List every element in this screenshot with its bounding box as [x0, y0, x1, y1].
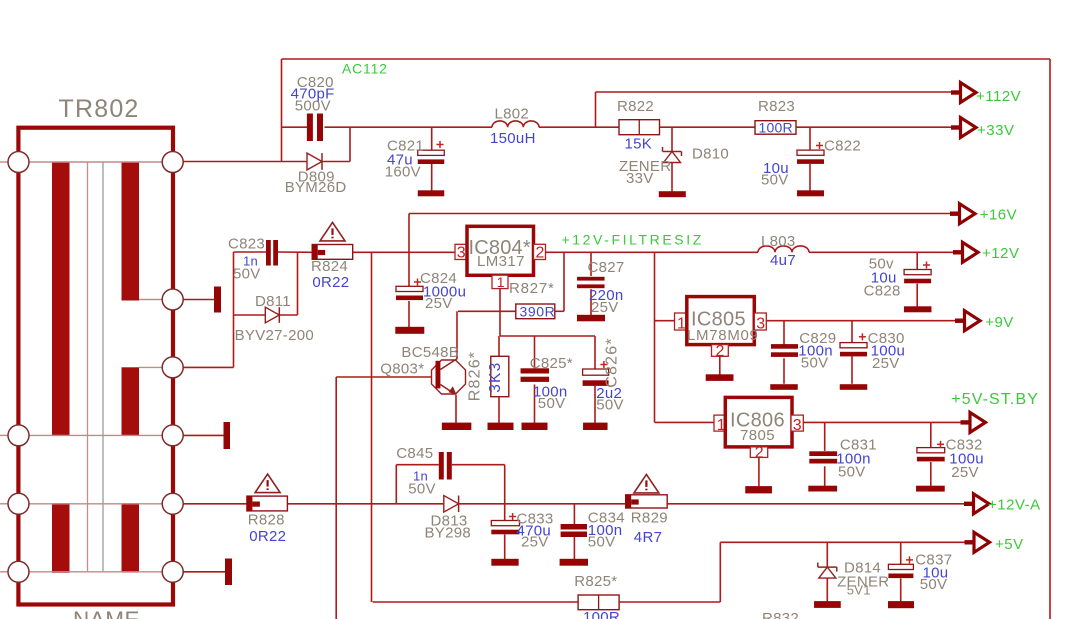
svg-text:0R22: 0R22	[249, 528, 286, 545]
svg-text:25V: 25V	[591, 299, 619, 316]
svg-text:L803: L803	[761, 233, 796, 250]
svg-text:100R: 100R	[583, 609, 620, 619]
svg-text:D811: D811	[255, 293, 291, 310]
svg-text:C827: C827	[588, 259, 625, 276]
svg-text:R822: R822	[617, 98, 654, 115]
svg-text:BYV27-200: BYV27-200	[235, 327, 314, 344]
svg-text:50V: 50V	[920, 576, 948, 593]
svg-text:Q803*: Q803*	[380, 361, 424, 378]
svg-text:R826*: R826*	[466, 351, 483, 401]
svg-text:BC548B: BC548B	[401, 344, 459, 361]
svg-text:R829: R829	[631, 510, 668, 527]
svg-text:25V: 25V	[872, 355, 900, 372]
svg-text:1: 1	[677, 316, 686, 333]
svg-text:C823: C823	[228, 236, 265, 253]
svg-text:50V: 50V	[801, 355, 829, 372]
svg-text:33V: 33V	[626, 170, 654, 187]
svg-text:50V: 50V	[588, 533, 616, 550]
svg-text:R827*: R827*	[509, 280, 555, 297]
svg-text:25V: 25V	[951, 464, 979, 481]
svg-text:3: 3	[457, 245, 466, 262]
svg-text:50V: 50V	[538, 395, 566, 412]
svg-text:3K3: 3K3	[487, 362, 504, 393]
svg-text:160V: 160V	[385, 164, 421, 181]
svg-text:3: 3	[793, 417, 802, 434]
svg-text:+9V: +9V	[985, 314, 1014, 331]
svg-text:D810: D810	[692, 146, 729, 163]
svg-text:R824: R824	[311, 258, 348, 275]
svg-text:100R: 100R	[759, 119, 793, 135]
svg-text:R832: R832	[762, 610, 799, 619]
svg-text:+12V: +12V	[982, 245, 1019, 262]
svg-text:BYM26D: BYM26D	[285, 179, 347, 196]
svg-text:+112V: +112V	[976, 88, 1021, 105]
svg-text:7805: 7805	[740, 427, 775, 444]
svg-text:15K: 15K	[625, 136, 653, 153]
svg-text:C822: C822	[824, 138, 861, 155]
svg-text:4u7: 4u7	[770, 252, 796, 269]
svg-text:500V: 500V	[295, 98, 331, 115]
svg-text:+16V: +16V	[980, 207, 1017, 224]
svg-text:25V: 25V	[425, 295, 453, 312]
svg-text:50V: 50V	[596, 397, 624, 414]
svg-text:LM317: LM317	[477, 253, 525, 270]
svg-text:150uH: 150uH	[490, 130, 536, 147]
svg-text:1: 1	[497, 274, 505, 290]
svg-text:50V: 50V	[761, 172, 789, 189]
svg-text:4R7: 4R7	[634, 529, 662, 546]
svg-text:+12V-FILTRESIZ: +12V-FILTRESIZ	[562, 232, 704, 248]
svg-text:AC112: AC112	[342, 61, 388, 77]
svg-text:C825*: C825*	[530, 355, 573, 372]
svg-text:50V: 50V	[408, 481, 436, 498]
svg-text:25V: 25V	[521, 533, 549, 550]
svg-text:0R22: 0R22	[312, 274, 349, 291]
svg-text:50V: 50V	[233, 266, 261, 283]
svg-text:BY298: BY298	[425, 524, 472, 541]
svg-text:L802: L802	[495, 106, 530, 123]
svg-text:C845: C845	[396, 445, 433, 462]
svg-text:R825*: R825*	[574, 573, 617, 590]
svg-text:TR802: TR802	[59, 95, 140, 123]
svg-text:NAME: NAME	[73, 607, 140, 619]
svg-text:390R: 390R	[520, 303, 556, 319]
svg-text:R823: R823	[758, 98, 795, 115]
svg-text:+33V: +33V	[977, 122, 1014, 139]
svg-text:5V1: 5V1	[847, 583, 871, 598]
svg-text:50V: 50V	[838, 463, 866, 480]
svg-text:C828: C828	[864, 283, 901, 300]
svg-text:2: 2	[536, 245, 545, 262]
svg-text:+5V-ST.BY: +5V-ST.BY	[951, 391, 1039, 408]
svg-text:R828: R828	[248, 512, 285, 529]
svg-text:C826*: C826*	[604, 337, 621, 387]
svg-text:+12V-A: +12V-A	[988, 496, 1041, 513]
svg-text:LM78M09: LM78M09	[687, 327, 759, 344]
svg-text:+5V: +5V	[995, 536, 1024, 553]
